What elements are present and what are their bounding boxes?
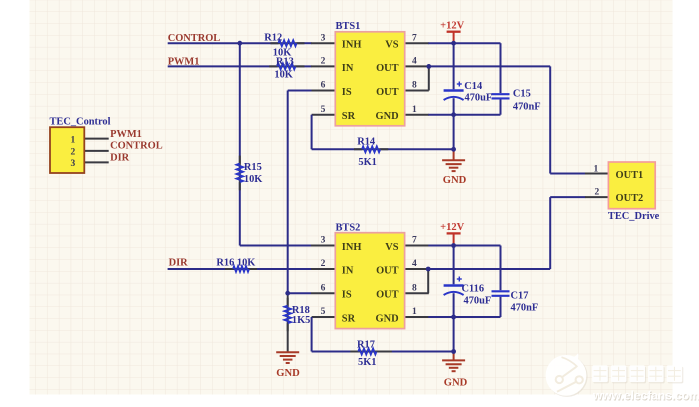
svg-text:R12: R12	[264, 32, 282, 43]
svg-text:BTS1: BTS1	[336, 21, 361, 32]
svg-text:4: 4	[412, 259, 417, 269]
svg-text:7: 7	[412, 236, 417, 246]
svg-text:C15: C15	[513, 88, 531, 99]
svg-text:CONTROL: CONTROL	[168, 33, 221, 44]
svg-text:1: 1	[412, 105, 417, 115]
svg-text:GND: GND	[276, 368, 300, 379]
svg-text:5K1: 5K1	[358, 157, 376, 168]
svg-text:2: 2	[321, 259, 326, 269]
svg-text:R14: R14	[357, 136, 375, 147]
svg-text:PWM1: PWM1	[110, 129, 142, 140]
svg-text:PWM1: PWM1	[168, 57, 200, 68]
svg-text:2: 2	[595, 187, 600, 197]
svg-text:R15: R15	[244, 162, 262, 173]
svg-text:C116: C116	[462, 283, 485, 294]
svg-text:R13: R13	[276, 57, 294, 68]
svg-text:470uF: 470uF	[464, 295, 492, 306]
svg-text:CONTROL: CONTROL	[110, 141, 163, 152]
svg-text:SR: SR	[342, 111, 356, 122]
svg-text:1: 1	[412, 307, 417, 317]
svg-text:OUT2: OUT2	[616, 193, 644, 204]
svg-text:OUT: OUT	[376, 290, 399, 301]
svg-text:INH: INH	[342, 40, 362, 51]
svg-text:C14: C14	[464, 81, 482, 92]
svg-text:VS: VS	[385, 40, 399, 51]
svg-text:INH: INH	[342, 242, 362, 253]
svg-text:1K5: 1K5	[292, 315, 310, 326]
svg-text:R16 10K: R16 10K	[216, 257, 255, 268]
svg-text:GND: GND	[376, 111, 399, 122]
svg-text:5: 5	[321, 307, 326, 317]
svg-text:470nF: 470nF	[513, 101, 541, 112]
svg-text:R17: R17	[357, 339, 375, 350]
svg-text:2: 2	[321, 57, 326, 67]
svg-text:470nF: 470nF	[511, 302, 539, 313]
svg-text:GND: GND	[443, 175, 467, 186]
svg-text:3: 3	[321, 236, 326, 246]
svg-text:C17: C17	[511, 290, 529, 301]
svg-text:8: 8	[412, 81, 417, 91]
svg-text:DIR: DIR	[110, 153, 130, 164]
svg-text:VS: VS	[385, 242, 399, 253]
svg-text:+12V: +12V	[440, 21, 464, 32]
svg-text:TEC_Drive: TEC_Drive	[608, 211, 660, 222]
svg-text:+12V: +12V	[440, 222, 464, 233]
svg-text:OUT1: OUT1	[616, 170, 644, 181]
svg-text:OUT: OUT	[376, 63, 399, 74]
svg-text:www.elecfans.com: www.elecfans.com	[592, 389, 699, 403]
svg-text:SR: SR	[342, 314, 356, 325]
svg-text:10K: 10K	[244, 174, 262, 185]
svg-text:10K: 10K	[274, 70, 292, 81]
svg-text:GND: GND	[444, 378, 468, 389]
svg-text:8: 8	[412, 283, 417, 293]
svg-text:2: 2	[71, 148, 76, 158]
svg-text:1: 1	[594, 164, 599, 174]
svg-text:1: 1	[71, 135, 76, 145]
svg-text:470uF: 470uF	[465, 93, 493, 104]
svg-text:IS: IS	[342, 87, 352, 98]
svg-text:7: 7	[412, 33, 417, 43]
svg-text:3: 3	[321, 33, 326, 43]
svg-text:5: 5	[321, 105, 326, 115]
svg-text:IN: IN	[342, 266, 354, 277]
svg-text:DIR: DIR	[169, 257, 189, 268]
svg-text:TEC_Control: TEC_Control	[50, 116, 111, 127]
svg-text:4: 4	[412, 57, 417, 67]
svg-text:5K1: 5K1	[358, 357, 376, 368]
svg-text:IN: IN	[342, 63, 354, 74]
svg-text:3: 3	[71, 159, 76, 169]
svg-text:OUT: OUT	[376, 87, 399, 98]
svg-text:OUT: OUT	[376, 266, 399, 277]
svg-text:BTS2: BTS2	[336, 223, 361, 234]
svg-text:6: 6	[321, 283, 326, 293]
svg-text:GND: GND	[376, 314, 399, 325]
svg-text:IS: IS	[342, 290, 352, 301]
svg-text:6: 6	[321, 81, 326, 91]
